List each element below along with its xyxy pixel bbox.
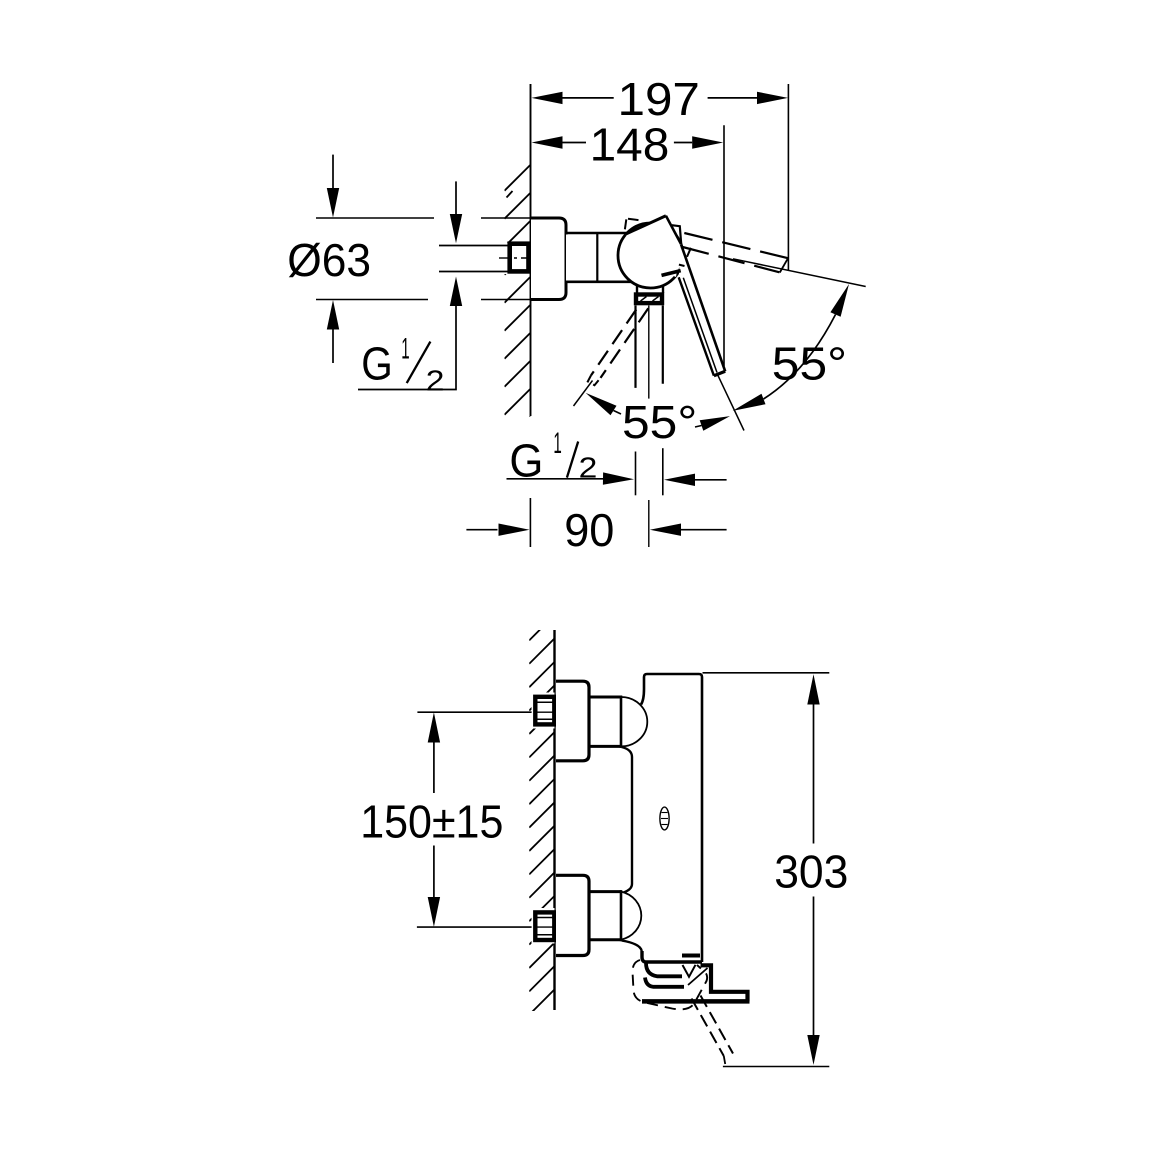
bottom view: top union connector and ball joint — [589, 696, 647, 748]
dimension 148 — [532, 118, 725, 366]
top view: escutcheon flange — [531, 218, 566, 300]
top view: mixing ball head — [618, 223, 683, 288]
svg-text:148: 148 — [590, 118, 670, 170]
bottom view: top union pipe/nut behind wall — [532, 693, 555, 729]
angle dimension 55 deg (upper, handle raised) — [718, 259, 866, 431]
dimension diameter 63 — [287, 155, 530, 363]
bottom view: top union escutcheon — [556, 681, 589, 761]
svg-text:1: 1 — [401, 332, 409, 365]
svg-text:197: 197 — [618, 73, 700, 125]
top view: handle cap — [625, 216, 681, 277]
dimension 150 plus-minus 15 — [360, 712, 554, 927]
top view: body cylinder — [566, 233, 640, 282]
top view: short top hatch — [507, 191, 513, 198]
svg-text:G: G — [361, 338, 393, 390]
svg-text:303: 303 — [774, 846, 848, 898]
svg-text:2: 2 — [579, 453, 598, 485]
bottom view: outlet spray cup — [645, 963, 708, 987]
svg-text:55°: 55° — [772, 337, 847, 389]
bottom view: hand shower holder bracket — [642, 965, 750, 1001]
top view: outlet collar nut — [636, 295, 662, 304]
bottom view: mousseur edge mark — [682, 954, 700, 958]
top view: pipe center line — [499, 257, 558, 259]
svg-text:150±15: 150±15 — [360, 796, 503, 848]
bottom view: dashed hand shower outline — [633, 960, 708, 1009]
svg-text:G: G — [509, 435, 543, 487]
top view: dashed handle lowered position (55 deg down-left) — [588, 308, 649, 385]
dimension 197 — [532, 73, 789, 271]
top view: wall hatching — [505, 165, 531, 443]
bottom view: bottom union connector and ball joint — [589, 890, 641, 941]
dimension 303 — [703, 673, 849, 1067]
top view: lever handle (solid, closed position) — [662, 244, 726, 375]
top view: wall surface line (also ext line for 197/148) — [530, 84, 532, 416]
bottom view: wall surface line — [553, 630, 555, 1010]
bottom view: GROHE logo — [660, 807, 669, 830]
dimension 90 — [466, 498, 726, 556]
svg-text:Ø63: Ø63 — [287, 234, 371, 286]
svg-text:2: 2 — [426, 366, 445, 398]
top view: hub below ball — [637, 285, 663, 294]
label G 1/2 (wall supply thread) — [358, 181, 462, 397]
top view: outlet center line — [648, 306, 650, 399]
top view: supply pipe behind wall — [439, 243, 512, 274]
angle dimension 55 deg (lower, handle swung) — [574, 381, 731, 449]
bottom view: dashed shower hose — [692, 996, 734, 1065]
svg-text:55°: 55° — [622, 396, 697, 448]
top view: dashed handle raised position (55 deg up) — [625, 219, 788, 273]
bottom view: bottom union escutcheon — [556, 875, 589, 955]
bottom view: body — [622, 674, 703, 962]
bottom view: wall hatching — [529, 614, 555, 1038]
top view: bottom outlet (G1/2 shower hose connection) — [636, 306, 663, 388]
svg-text:1: 1 — [553, 427, 561, 460]
top view: union nut behind wall — [510, 244, 529, 272]
svg-text:90: 90 — [564, 504, 614, 556]
bottom view: bottom union pipe/nut behind wall — [532, 908, 555, 944]
label G 1/2 (bottom outlet thread) — [507, 427, 727, 496]
